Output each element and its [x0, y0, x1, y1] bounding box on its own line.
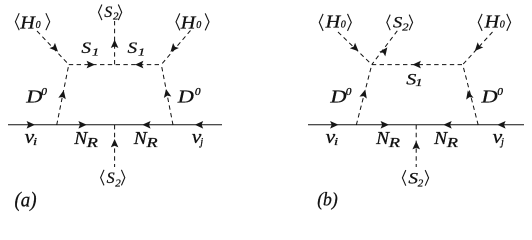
svg-text:S: S — [107, 170, 115, 187]
svg-text:R: R — [145, 135, 157, 151]
svg-text:0: 0 — [41, 87, 47, 98]
svg-text:S: S — [408, 169, 418, 187]
svg-text:D: D — [480, 88, 498, 108]
svg-text:i: i — [33, 136, 38, 148]
svg-text:0: 0 — [346, 87, 352, 98]
svg-text:0: 0 — [341, 19, 346, 30]
svg-text:1: 1 — [138, 46, 145, 58]
svg-text:(b): (b) — [317, 189, 337, 211]
svg-text:H: H — [180, 13, 197, 33]
svg-text:(a): (a) — [15, 188, 37, 211]
svg-text:R: R — [388, 135, 400, 151]
svg-text:2: 2 — [402, 20, 408, 33]
svg-text:S: S — [128, 39, 138, 57]
svg-text:0: 0 — [500, 19, 505, 30]
svg-text:S: S — [393, 14, 403, 32]
svg-text:0: 0 — [36, 20, 41, 31]
svg-text:D: D — [177, 88, 195, 108]
svg-text:H: H — [19, 13, 36, 33]
svg-text:R: R — [86, 135, 98, 151]
svg-text:i: i — [334, 136, 339, 148]
svg-text:2: 2 — [113, 10, 119, 22]
svg-text:1: 1 — [415, 77, 422, 89]
svg-text:1: 1 — [92, 46, 99, 58]
svg-text:S: S — [104, 4, 112, 21]
svg-text:H: H — [325, 13, 342, 33]
svg-text:D: D — [25, 88, 43, 108]
svg-text:H: H — [484, 13, 501, 33]
svg-text:2: 2 — [115, 177, 121, 189]
svg-text:2: 2 — [418, 178, 424, 190]
svg-text:R: R — [446, 135, 458, 151]
svg-text:S: S — [81, 39, 91, 57]
svg-text:D: D — [329, 88, 347, 108]
svg-text:0: 0 — [196, 20, 201, 31]
svg-text:0: 0 — [195, 87, 201, 98]
svg-text:0: 0 — [497, 87, 503, 98]
